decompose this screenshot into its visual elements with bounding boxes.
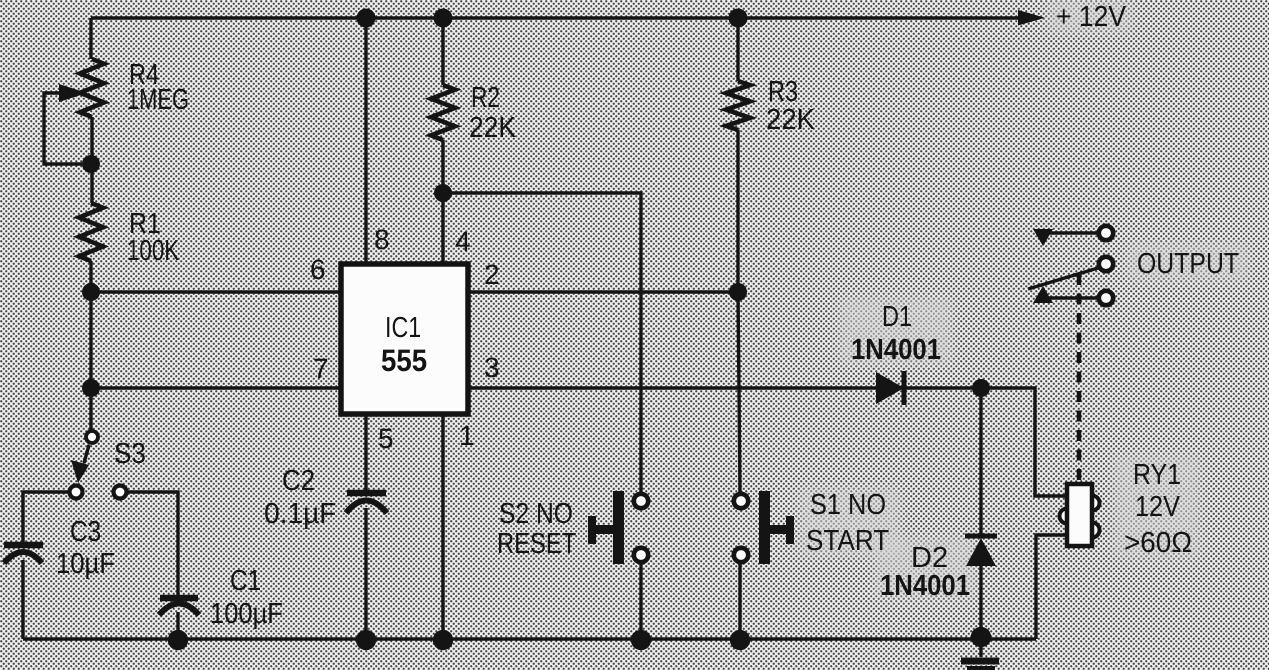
- node junction pin7: [82, 379, 100, 397]
- capacitor C1: [159, 598, 199, 615]
- label S1 NO START: [806, 489, 889, 557]
- node junction pin4/reset: [434, 184, 452, 202]
- capacitor C3: [4, 545, 43, 563]
- wire pin 4 / R2 branch: [441, 18, 444, 264]
- wire C3 to bottom rail: [21, 560, 24, 639]
- svg-text:3: 3: [484, 352, 500, 383]
- wire pin 8 from rail: [364, 18, 367, 264]
- node junction D2 ground: [971, 627, 991, 647]
- svg-text:8: 8: [374, 224, 390, 255]
- svg-text:7: 7: [313, 353, 329, 384]
- node junction S2 rail: [631, 630, 651, 650]
- label +12V: [1056, 1, 1127, 33]
- svg-text:S1 NO: S1 NO: [810, 489, 886, 521]
- node junction pin6: [82, 283, 100, 301]
- label RY1 12V >60ohm: [1124, 459, 1192, 559]
- output NC contact arm: [1033, 229, 1097, 246]
- node junction rail R2: [434, 9, 453, 28]
- resistor R1: [79, 203, 103, 261]
- wire reset line to S2: [443, 193, 641, 493]
- wire pin 5: [364, 414, 367, 640]
- pushbutton S1 plunger: [759, 491, 794, 564]
- label S2 NO RESET: [497, 498, 577, 560]
- pushbutton S2 bottom contact: [634, 548, 648, 562]
- resistor R3: [726, 81, 750, 130]
- label R3 22K: [766, 76, 816, 136]
- node junction D1/D2: [972, 379, 990, 397]
- pushbutton S1 top contact: [734, 494, 748, 508]
- node junction R4/R1: [82, 155, 100, 173]
- output NC terminal: [1099, 226, 1113, 240]
- wire C1 to bottom rail: [176, 612, 179, 640]
- resistor R4: [80, 59, 104, 117]
- switch S3 right contact: [114, 486, 127, 499]
- wire S2 to rail: [639, 563, 642, 640]
- resistor R3 branch wire: [736, 18, 739, 292]
- node junction S1 rail: [730, 630, 750, 650]
- wire S3 to C3: [23, 492, 68, 542]
- label D1 1N4001: [851, 301, 941, 366]
- wire S3 to C1: [128, 492, 178, 595]
- wire relay actuating dashed link: [1077, 274, 1082, 484]
- IC IC1 555 timer: [341, 264, 468, 414]
- switch S3 arm: [84, 445, 89, 463]
- wire pin 3 output line: [468, 388, 1067, 496]
- svg-text:IC1: IC1: [385, 312, 421, 344]
- svg-text:100K: 100K: [127, 235, 180, 267]
- svg-text:R2: R2: [471, 82, 500, 114]
- node junction pin5 rail: [356, 630, 376, 650]
- svg-text:1: 1: [459, 420, 475, 451]
- svg-text:5: 5: [378, 423, 394, 454]
- output pole arm: [1028, 268, 1098, 289]
- wire D2 branch: [979, 388, 982, 637]
- label OUTPUT: [1137, 248, 1239, 280]
- label R4 1MEG: [127, 59, 189, 116]
- svg-text:C3: C3: [70, 516, 101, 548]
- wire +12V top rail: [91, 16, 1028, 19]
- wire left branch vertical: [91, 18, 92, 430]
- label C2 0.1uF: [264, 465, 337, 530]
- label R1 100K: [127, 208, 180, 267]
- svg-text:>60Ω: >60Ω: [1124, 527, 1192, 559]
- svg-text:S2 NO: S2 NO: [499, 498, 573, 530]
- output NO contact arm: [1033, 286, 1097, 303]
- node junction C1 rail: [168, 630, 188, 650]
- capacitor C2: [346, 493, 387, 513]
- svg-text:22K: 22K: [766, 104, 816, 136]
- wire relay return: [1036, 535, 1067, 639]
- wire bottom ground rail: [23, 637, 1036, 640]
- resistor R2: [431, 85, 455, 140]
- svg-text:555: 555: [381, 343, 427, 378]
- switch S3 top contact: [86, 431, 98, 443]
- wire pin 7: [91, 386, 343, 389]
- label D2 1N4001: [880, 542, 970, 602]
- ground: [961, 637, 999, 669]
- pushbutton S2 top contact: [634, 494, 648, 508]
- svg-text:4: 4: [455, 226, 471, 257]
- svg-text:1N4001: 1N4001: [880, 570, 970, 602]
- svg-text:C2: C2: [282, 465, 315, 497]
- label C3 10uF: [56, 516, 115, 580]
- pushbutton S1 bottom contact: [734, 548, 748, 562]
- svg-text:1N4001: 1N4001: [851, 334, 941, 366]
- svg-text:C1: C1: [230, 565, 261, 597]
- svg-text:S3: S3: [114, 438, 146, 470]
- wire pin 6: [91, 290, 343, 293]
- power +12V arrow: [1018, 10, 1045, 26]
- wire R3 to S1: [738, 292, 740, 493]
- relay RY1 coil: [1060, 484, 1100, 546]
- label R2 22K: [469, 82, 517, 144]
- svg-text:START: START: [806, 525, 889, 557]
- node junction pin2/R3: [729, 283, 747, 301]
- svg-text:D1: D1: [882, 301, 912, 333]
- node junction rail R3: [729, 9, 748, 28]
- svg-text:22K: 22K: [469, 112, 517, 144]
- svg-text:100µF: 100µF: [210, 598, 283, 630]
- node junction rail pin8: [357, 9, 376, 28]
- diode D2: [965, 536, 997, 566]
- wire pin 2: [468, 290, 738, 293]
- label C1 100uF: [210, 565, 283, 630]
- switch S3 left contact: [70, 486, 83, 499]
- svg-text:6: 6: [310, 254, 326, 285]
- svg-text:RY1: RY1: [1133, 459, 1181, 491]
- svg-text:12V: 12V: [1135, 491, 1180, 523]
- diode D1: [876, 371, 904, 405]
- wire pin 1: [441, 414, 444, 640]
- output pole terminal: [1099, 257, 1113, 271]
- svg-text:2: 2: [484, 259, 500, 290]
- svg-text:RESET: RESET: [497, 528, 577, 560]
- output NO terminal: [1099, 291, 1113, 305]
- pushbutton S2 plunger: [588, 491, 624, 564]
- node junction pin1 rail: [433, 630, 453, 650]
- wire S1 to rail: [738, 563, 741, 640]
- svg-text:10µF: 10µF: [56, 548, 115, 580]
- potentiometer R4 wiper arm: [44, 93, 82, 164]
- svg-text:OUTPUT: OUTPUT: [1137, 248, 1239, 280]
- svg-text:0.1µF: 0.1µF: [264, 498, 337, 530]
- svg-text:+ 12V: + 12V: [1056, 1, 1127, 33]
- svg-text:1MEG: 1MEG: [127, 84, 189, 116]
